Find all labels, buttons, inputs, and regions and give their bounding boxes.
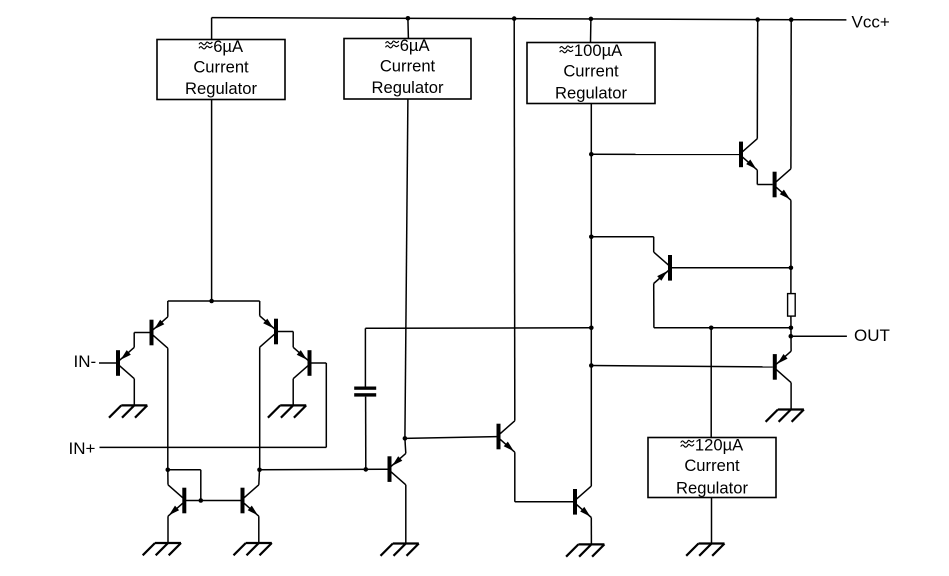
svg-text:Current: Current <box>380 56 436 75</box>
svg-text:6µA: 6µA <box>213 37 244 56</box>
svg-text:Regulator: Regulator <box>676 478 748 497</box>
svg-text:Current: Current <box>684 456 740 475</box>
svg-text:100µA: 100µA <box>574 41 623 60</box>
svg-text:Vcc+: Vcc+ <box>852 12 890 31</box>
svg-text:Regulator: Regulator <box>372 78 444 97</box>
svg-text:120µA: 120µA <box>695 435 744 454</box>
svg-text:6µA: 6µA <box>400 36 431 55</box>
svg-text:Regulator: Regulator <box>185 79 257 98</box>
svg-text:Current: Current <box>563 61 619 80</box>
svg-text:IN+: IN+ <box>69 439 96 458</box>
svg-text:OUT: OUT <box>854 326 890 345</box>
svg-text:Current: Current <box>193 57 249 76</box>
svg-text:IN-: IN- <box>74 352 97 371</box>
svg-text:Regulator: Regulator <box>555 83 627 102</box>
